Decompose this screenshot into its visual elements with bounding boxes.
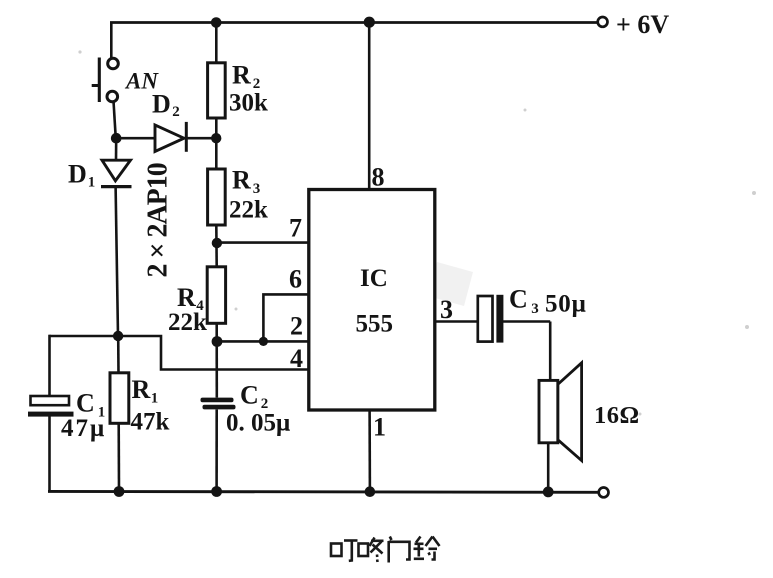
- svg-text:2 × 2AP10: 2 × 2AP10: [143, 163, 174, 277]
- svg-text:2: 2: [290, 312, 303, 341]
- svg-text:3: 3: [440, 295, 453, 324]
- svg-text:22k: 22k: [229, 197, 268, 224]
- svg-text:30k: 30k: [229, 90, 268, 117]
- svg-text:22k: 22k: [168, 309, 207, 336]
- svg-text:16Ω: 16Ω: [594, 402, 640, 429]
- svg-text:4: 4: [290, 344, 303, 373]
- svg-text:8: 8: [372, 163, 385, 192]
- svg-text:555: 555: [356, 311, 394, 338]
- svg-text:1: 1: [373, 413, 386, 442]
- svg-text:6: 6: [289, 265, 302, 294]
- svg-text:+ 6V: + 6V: [616, 10, 669, 39]
- svg-text:IC: IC: [360, 265, 388, 292]
- svg-text:50μ: 50μ: [545, 291, 587, 318]
- svg-text:47k: 47k: [131, 409, 170, 436]
- svg-text:0. 05μ: 0. 05μ: [226, 410, 290, 437]
- svg-text:47μ: 47μ: [61, 415, 106, 442]
- svg-text:7: 7: [289, 214, 302, 243]
